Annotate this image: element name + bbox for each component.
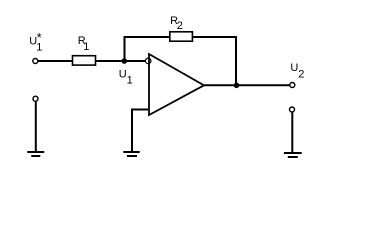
terminal output ground reference xyxy=(290,107,295,112)
svg-text:1: 1 xyxy=(83,41,89,53)
wire output ground stem xyxy=(291,112,293,153)
ground op-amp non-inverting xyxy=(123,152,139,156)
svg-text:2: 2 xyxy=(177,20,183,32)
node output junction xyxy=(234,83,240,89)
wire R2 to right corner xyxy=(193,36,238,38)
wire top to R2 xyxy=(124,36,171,38)
terminal input ground reference xyxy=(33,96,38,101)
ground output xyxy=(284,153,302,157)
wire input ground stem xyxy=(35,102,37,153)
svg-text:1: 1 xyxy=(127,74,133,86)
label U1* xyxy=(29,31,42,54)
resistor R1 xyxy=(73,56,96,65)
svg-text:U: U xyxy=(119,68,127,80)
wire feedback up from node U1 xyxy=(124,37,126,61)
ground input xyxy=(27,152,44,156)
label U2 xyxy=(290,62,304,80)
wire feedback down to output node xyxy=(235,36,237,85)
label R2 xyxy=(170,15,183,32)
wire non-inverting input xyxy=(132,110,148,153)
wire output xyxy=(204,84,290,86)
node U1 junction xyxy=(122,58,128,64)
wire input terminal to R1 xyxy=(38,60,73,62)
op-amp U1 triangle xyxy=(149,54,204,115)
terminal U2 output xyxy=(290,83,295,88)
inverting input bubble xyxy=(145,58,151,64)
wire node U1 to op-amp inverting input xyxy=(124,60,146,62)
terminal U1* input xyxy=(33,59,38,64)
label R1 xyxy=(78,35,90,53)
svg-text:U: U xyxy=(290,62,298,74)
resistor R2 xyxy=(170,32,193,41)
svg-text:2: 2 xyxy=(298,68,304,80)
svg-text:*: * xyxy=(37,31,42,45)
wire R1 to node U1 xyxy=(96,60,125,62)
label U1 xyxy=(119,68,133,86)
